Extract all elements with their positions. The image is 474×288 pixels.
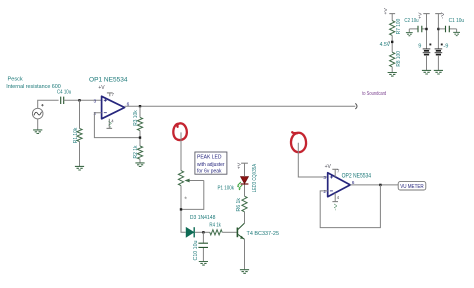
node feedback junction bbox=[139, 136, 141, 138]
wire R3 top bbox=[139, 106, 141, 117]
wire R2 to ground bbox=[139, 159, 141, 162]
battery B2 -9V bbox=[435, 48, 443, 50]
power +V LED bbox=[244, 163, 246, 176]
svg-text:with adjuster: with adjuster bbox=[196, 162, 225, 168]
power +V OP1 bbox=[109, 93, 111, 96]
svg-text:VU METER: VU METER bbox=[400, 184, 424, 190]
wire P1 wiper loop bbox=[181, 181, 204, 210]
ground below B2 bbox=[434, 70, 443, 74]
wire to P1 bbox=[181, 132, 186, 232]
potentiometer P1 bbox=[178, 171, 183, 186]
svg-text:4.5V: 4.5V bbox=[380, 42, 391, 48]
node C10 junction bbox=[202, 231, 204, 233]
svg-text:+V: +V bbox=[417, 11, 422, 19]
capacitor C4 bbox=[61, 97, 64, 104]
resistor R2 bbox=[137, 146, 142, 159]
ground below C1 bbox=[453, 32, 460, 35]
resistor R7 bbox=[390, 21, 395, 36]
wire B1 to ground bbox=[426, 55, 428, 70]
svg-text:OP2 NE5534: OP2 NE5534 bbox=[342, 173, 372, 180]
capacitor C10 bbox=[202, 232, 204, 261]
wire R8 to ground bbox=[391, 67, 393, 72]
node C2 junction bbox=[425, 28, 427, 30]
wire R1 branch bbox=[79, 100, 81, 166]
op-amp OP2 bbox=[328, 173, 351, 197]
svg-text:OP1 NE5534: OP1 NE5534 bbox=[89, 76, 128, 83]
node C1 junction bbox=[437, 28, 439, 30]
power +V battery B1 bbox=[423, 13, 429, 15]
ground below source bbox=[33, 130, 42, 134]
svg-text:2: 2 bbox=[323, 189, 326, 195]
svg-text:+V: +V bbox=[325, 164, 332, 170]
ground below B1 bbox=[422, 70, 431, 74]
wire D3 to R4 bbox=[195, 231, 210, 233]
red annotation circle 1 bbox=[173, 123, 187, 140]
red annotation circle 2 bbox=[291, 132, 306, 152]
svg-text:R3 10k: R3 10k bbox=[133, 110, 139, 126]
resistor R6 bbox=[242, 196, 247, 212]
svg-text:R6 1k: R6 1k bbox=[236, 198, 242, 212]
diode D3 bbox=[186, 228, 194, 237]
signal source V1 bbox=[32, 108, 43, 119]
resistor R8 bbox=[390, 52, 395, 67]
wire source to C4 bbox=[38, 100, 59, 108]
power +V rail R7 bbox=[389, 13, 395, 15]
svg-text:+V: +V bbox=[237, 162, 242, 170]
ground below R2 bbox=[135, 163, 144, 167]
power -V OP2 bbox=[334, 193, 336, 202]
wire C4 to op-amp bbox=[64, 99, 102, 101]
svg-text:R7 100: R7 100 bbox=[396, 19, 402, 35]
svg-text:PEAK LED: PEAK LED bbox=[197, 155, 222, 161]
svg-text:for 6v peak: for 6v peak bbox=[197, 169, 222, 175]
svg-text:LED3 CQX35A: LED3 CQX35A bbox=[252, 164, 258, 193]
wire R6 to LED bbox=[244, 184, 246, 196]
node OP2 output junction bbox=[379, 184, 381, 186]
svg-text:C10 10u: C10 10u bbox=[193, 241, 199, 261]
wire R4 to T4 bbox=[222, 231, 237, 233]
peak led note box bbox=[195, 152, 227, 174]
svg-text:R1 10k: R1 10k bbox=[73, 128, 79, 144]
svg-text:P1 100k: P1 100k bbox=[218, 185, 235, 191]
ground below C10 bbox=[199, 262, 208, 266]
svg-text:R8 100: R8 100 bbox=[396, 51, 402, 67]
power -V battery B2 bbox=[435, 13, 441, 15]
svg-text:C4 10u: C4 10u bbox=[57, 90, 71, 96]
wire T4 collector bbox=[244, 212, 246, 223]
wire B2 to ground bbox=[437, 55, 439, 70]
node 4.5V bbox=[391, 41, 393, 43]
svg-text:*: * bbox=[184, 197, 187, 204]
wire main output bbox=[125, 105, 356, 107]
svg-text:R4 1k: R4 1k bbox=[209, 222, 221, 228]
wire T4 emitter bbox=[244, 239, 246, 269]
ground below C2 bbox=[406, 33, 413, 36]
battery B1 9V bbox=[423, 48, 431, 50]
svg-text:+V: +V bbox=[98, 85, 105, 91]
svg-text:to Soundcard: to Soundcard bbox=[362, 91, 386, 97]
node output junction bbox=[139, 105, 141, 107]
ground below T4 bbox=[240, 270, 249, 274]
op-amp OP1 bbox=[102, 96, 125, 119]
LED LED3 bbox=[241, 177, 249, 184]
battery B1 plus dot bbox=[429, 44, 431, 46]
svg-text:Internal resistance 600: Internal resistance 600 bbox=[6, 84, 61, 90]
transistor T4 bbox=[236, 228, 238, 238]
node input junction bbox=[78, 99, 80, 101]
wire R7 to R8 bbox=[391, 35, 393, 52]
vu meter box bbox=[398, 182, 426, 190]
svg-text:T4 BC337-25: T4 BC337-25 bbox=[247, 231, 280, 237]
wire OP2 feedback bbox=[320, 185, 380, 228]
ground below R1 bbox=[75, 166, 84, 170]
svg-text:C1 10u: C1 10u bbox=[449, 18, 465, 24]
wire source to ground bbox=[37, 119, 39, 130]
terminal to soundcard bbox=[355, 103, 357, 109]
wire R3 to R2 bbox=[139, 131, 141, 146]
svg-text:3: 3 bbox=[323, 175, 326, 181]
svg-text:R2 1k: R2 1k bbox=[133, 145, 139, 158]
resistor R4 bbox=[210, 230, 222, 235]
power -V OP1 bbox=[108, 119, 110, 129]
wire OP1 feedback bbox=[94, 113, 140, 138]
node P1 junction bbox=[180, 208, 182, 210]
wire OP2 output bbox=[350, 184, 398, 186]
svg-text:D3 1N4148: D3 1N4148 bbox=[190, 215, 216, 221]
wire to OP2 input bbox=[298, 143, 327, 177]
ground below R8 bbox=[388, 73, 397, 77]
svg-text:Pesck: Pesck bbox=[8, 77, 24, 83]
svg-text:9: 9 bbox=[418, 43, 421, 49]
svg-text:-9: -9 bbox=[443, 43, 448, 49]
resistor R3 bbox=[137, 117, 142, 130]
battery B2 minus dot bbox=[441, 44, 443, 46]
resistor R1 bbox=[77, 128, 82, 141]
power +V OP2 bbox=[334, 169, 336, 177]
svg-text:3: 3 bbox=[94, 98, 97, 104]
capacitor C1 bbox=[438, 28, 456, 30]
capacitor C2 bbox=[409, 28, 426, 30]
svg-text:+V: +V bbox=[383, 7, 388, 15]
